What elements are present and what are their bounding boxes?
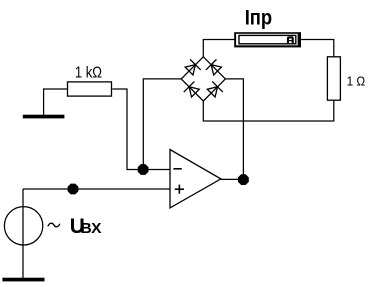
source Uvx (AC source circle)	[4, 207, 42, 245]
wire 1 kohm resistor right to inverting input	[112, 89, 170, 170]
diode VD4 (bottom node to right node)	[207, 81, 223, 97]
wire 1 kohm resistor left to ground	[44, 89, 67, 115]
wire bridge left node down to inverting input node	[143, 79, 181, 170]
svg-text:Iпр: Iпр	[245, 6, 273, 29]
wire ammeter left to bridge top node	[203, 40, 234, 58]
node (op-amp output junction)	[238, 175, 248, 185]
op-amp U1	[170, 150, 221, 208]
resistor 1 kOhm	[68, 82, 112, 96]
wire 1 ohm resistor bottom to bridge bottom node	[203, 101, 333, 121]
wire source to ground	[22, 189, 24, 278]
wire bridge right node down to op-amp output node	[225, 79, 243, 180]
ammeter A	[234, 32, 301, 47]
source tilde mark	[48, 223, 60, 227]
wire op-amp output	[221, 178, 244, 180]
svg-text:1 kΩ: 1 kΩ	[75, 65, 102, 82]
ground (top left)	[23, 115, 65, 119]
diode VD2 (right node to top node)	[206, 59, 222, 75]
diode bridge wires (diamond)	[181, 57, 225, 101]
node (inverting input junction)	[138, 165, 148, 175]
diode VD1 (left node to top node)	[185, 59, 201, 75]
diode VD3 (bottom node to left node)	[184, 81, 200, 97]
svg-text:1 Ω: 1 Ω	[347, 74, 366, 88]
wire ammeter right to 1 ohm resistor top	[301, 40, 334, 57]
node (bottom wire junction)	[68, 184, 78, 194]
resistor 1 Ohm	[327, 57, 340, 100]
ground (bottom left)	[2, 278, 44, 282]
svg-text:ВХ: ВХ	[81, 221, 102, 237]
wire source to non-inverting input	[23, 188, 170, 190]
